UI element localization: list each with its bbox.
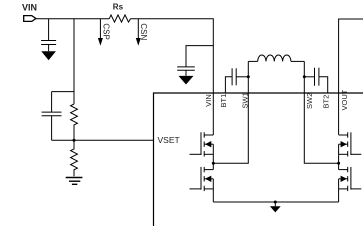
wire RC bottom stub	[52, 139, 74, 141]
capacitor C2	[42, 92, 62, 141]
svg-text:BT1: BT1	[219, 94, 228, 108]
capacitor C1	[41, 19, 56, 45]
ground (C3, power triangle)	[179, 70, 194, 84]
wire SW1 column	[213, 61, 248, 163]
svg-text:VOUT: VOUT	[340, 89, 349, 110]
ground (power triangle, rail)	[270, 202, 281, 212]
wire VOUT top	[339, 19, 363, 135]
svg-text:VSET: VSET	[158, 135, 180, 145]
inductor L1	[248, 55, 304, 61]
node ground junction	[274, 201, 277, 204]
node SW1-drain junction	[212, 162, 215, 165]
resistor Rs	[109, 3, 130, 22]
capacitor C3	[177, 46, 213, 71]
capacitor C5 (BT2 bootstrap)	[304, 68, 327, 93]
capacitor C4 (BT1 bootstrap)	[225, 68, 248, 93]
wire feedback branch	[73, 19, 75, 104]
node CSP (arrow + label)	[98, 19, 111, 46]
svg-text:VIN: VIN	[204, 94, 213, 107]
svg-text:SW2: SW2	[305, 93, 314, 109]
wire VIN top rail	[36, 19, 213, 135]
node CSN (arrow + label)	[136, 19, 148, 46]
transistor Q1 (high-side left NMOS)	[190, 132, 214, 163]
svg-text:BT2: BT2	[321, 95, 330, 109]
port VIN	[22, 3, 37, 22]
resistor R1	[71, 104, 78, 140]
resistor R2	[71, 140, 78, 176]
IC U1 boundary outline	[154, 93, 363, 226]
node SW2-drain junction	[337, 162, 340, 165]
transistor Q4 (high-side right NMOS, mirrored)	[339, 132, 362, 163]
node SW1 junction	[247, 75, 250, 78]
node SW2 junction	[303, 75, 306, 78]
ground (R2, earth)	[66, 178, 83, 185]
svg-text:VIN: VIN	[22, 3, 37, 13]
ground (C1, power triangle)	[41, 45, 56, 61]
wire SW2 column	[304, 61, 338, 163]
svg-text:Rs: Rs	[113, 3, 124, 12]
wire RC top stub	[52, 91, 74, 93]
node VSET junction	[73, 139, 76, 142]
wire ground rail	[213, 201, 338, 203]
svg-text:CSN: CSN	[139, 23, 148, 40]
transistor Q2 (low-side left NMOS)	[190, 163, 214, 202]
wire VSET	[74, 139, 154, 141]
svg-text:CSP: CSP	[101, 23, 110, 39]
transistor Q3 (low-side right NMOS, mirrored)	[339, 163, 362, 202]
